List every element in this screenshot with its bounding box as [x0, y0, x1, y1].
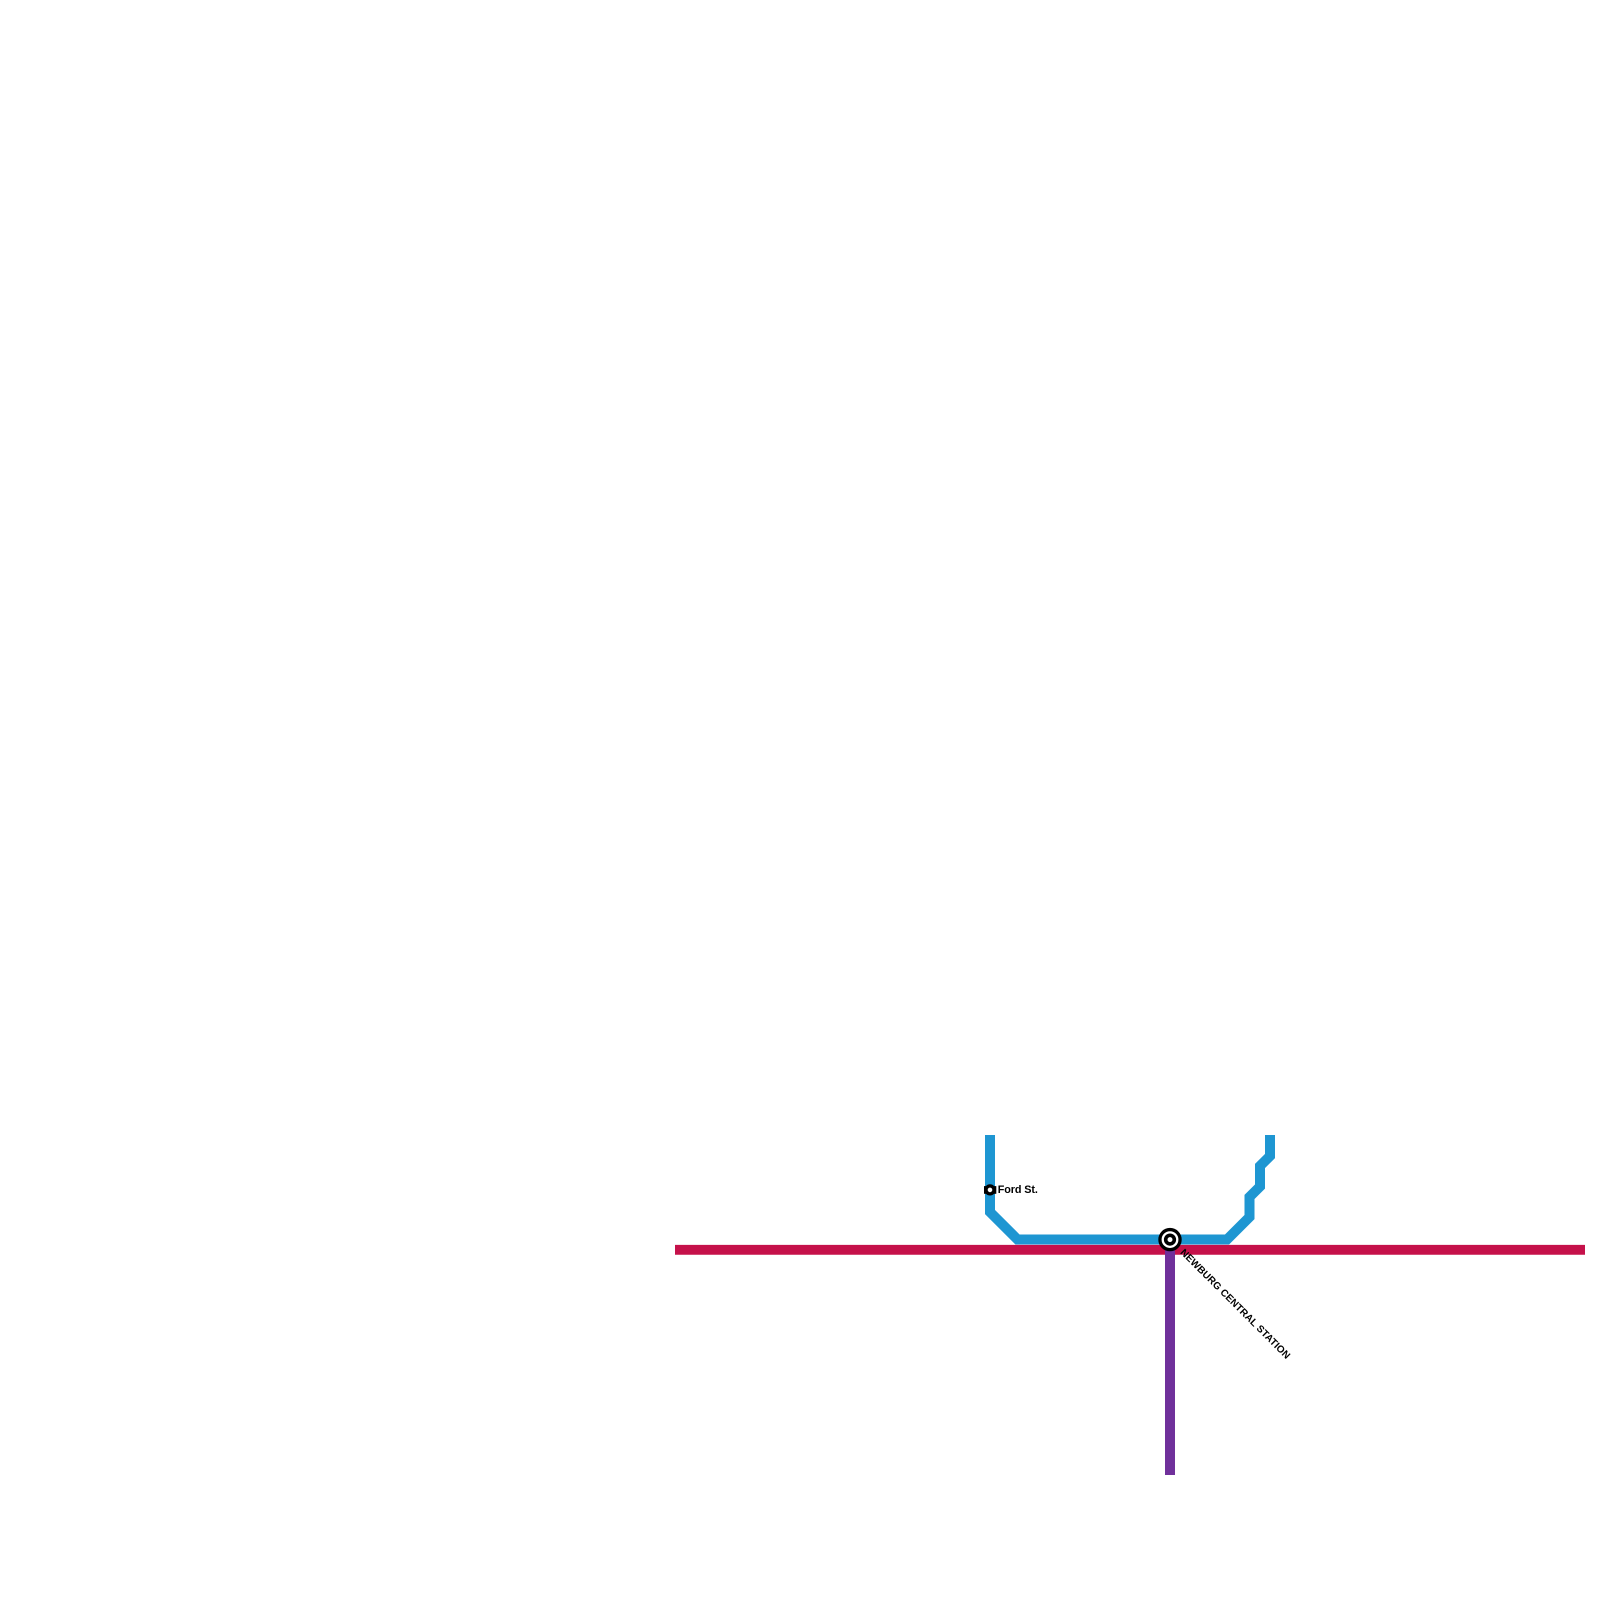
- Newburg Central Station bullseye: [1160, 1230, 1180, 1250]
- svg-text:Ford St.: Ford St.: [998, 1184, 1038, 1196]
- blue line (U-shaped route with zigzag NE branch): [990, 1135, 1270, 1240]
- purple line (south branch from central station): [1165, 1248, 1175, 1475]
- Ford St. station circle: [986, 1186, 994, 1194]
- Ford St. station tick: [984, 1186, 996, 1194]
- red line (east-west trunk): [675, 1245, 1585, 1255]
